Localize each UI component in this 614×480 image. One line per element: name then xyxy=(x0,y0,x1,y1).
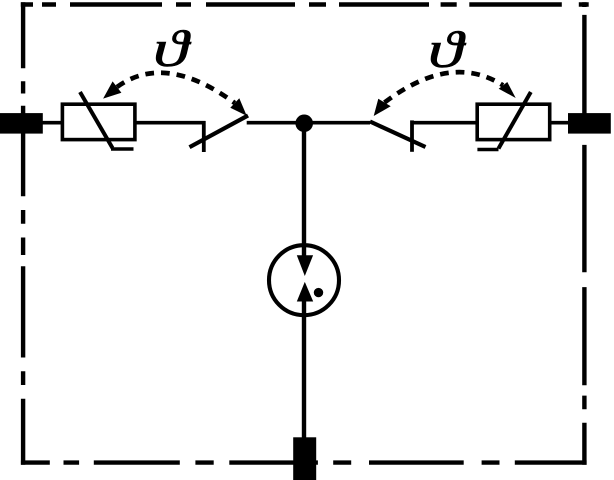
enclosure border bottom (dash-dot) xyxy=(21,460,587,464)
enclosure border right (dash-dot) xyxy=(582,2,586,464)
wire: left varistor to left contact xyxy=(136,121,206,125)
thermal action dashed arc left xyxy=(117,73,235,103)
left disconnector blade xyxy=(190,116,249,148)
varistor RV2 body xyxy=(477,104,550,139)
varistor RV1 diagonal stroke xyxy=(80,92,113,148)
varistor RV1 diagonal foot xyxy=(111,147,134,151)
GDT gas-filled indicator dot xyxy=(314,288,323,297)
GDT bottom arrowhead xyxy=(297,282,313,302)
right disconnector blade xyxy=(370,122,426,148)
wire: left block to left varistor xyxy=(40,121,62,125)
wire: right varistor to right block xyxy=(549,121,569,125)
varistor RV2 diagonal foot xyxy=(477,148,498,152)
varistor RV1 body xyxy=(62,104,134,139)
svg-text:ϑ: ϑ xyxy=(153,20,192,78)
enclosure border left (dash-dot) xyxy=(21,2,25,464)
enclosure border top (dash-dot) xyxy=(21,2,589,6)
GDT U1 circle xyxy=(269,245,339,315)
wire: left blade hinge to node xyxy=(247,121,305,125)
svg-text:ϑ: ϑ xyxy=(428,20,467,78)
theta label right xyxy=(428,20,467,78)
terminal block bottom xyxy=(293,437,316,480)
right disconnector fixed contact tick xyxy=(410,120,414,151)
wire: right contact to right varistor xyxy=(412,121,476,125)
terminal block left xyxy=(0,113,43,134)
theta label left xyxy=(153,20,192,78)
arrowhead right-arc left end xyxy=(374,99,391,116)
thermal action dashed arc right xyxy=(385,72,504,102)
arrowhead right-arc right end xyxy=(499,82,516,98)
wire: GDT down to bottom terminal xyxy=(302,297,306,440)
wire: node to right blade hinge xyxy=(304,121,370,125)
wire: node down to GDT xyxy=(302,123,306,260)
left disconnector fixed contact tick xyxy=(202,121,206,152)
arrowhead left-arc left end xyxy=(103,81,121,98)
GDT top arrowhead xyxy=(297,255,313,276)
arrowhead left-arc right end xyxy=(230,98,246,115)
terminal block right xyxy=(568,113,611,134)
node junction dot xyxy=(295,115,313,133)
varistor RV2 diagonal stroke xyxy=(499,92,531,149)
